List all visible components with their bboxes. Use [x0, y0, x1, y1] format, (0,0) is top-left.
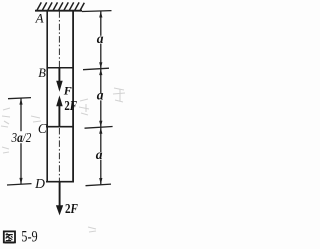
svg-text:A: A [35, 11, 44, 26]
svg-text:a: a [97, 88, 104, 103]
svg-text:a: a [97, 31, 104, 46]
svg-text:C: C [38, 121, 47, 136]
svg-text:B: B [38, 66, 46, 80]
svg-text:a: a [96, 147, 103, 162]
svg-text:5-9: 5-9 [21, 229, 38, 246]
svg-text:2F: 2F [65, 201, 78, 216]
svg-text:3a/2: 3a/2 [11, 131, 32, 146]
svg-text:F: F [63, 83, 72, 97]
svg-text:D: D [34, 176, 45, 191]
svg-text:2F: 2F [64, 98, 77, 113]
